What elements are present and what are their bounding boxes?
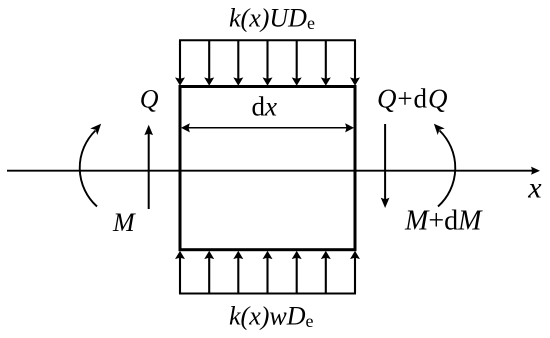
moment arc M+dM (right) [434, 124, 455, 206]
svg-text:dx: dx [252, 92, 278, 122]
bottom distributed load line [179, 293, 356, 295]
x-axis line [7, 170, 533, 172]
bottom load arrow 1 [176, 252, 184, 294]
svg-text:k(x)wDe: k(x)wDe [229, 302, 314, 332]
top load arrow 2 [205, 40, 213, 85]
svg-text:Q+dQ: Q+dQ [377, 83, 448, 113]
svg-text:Q: Q [140, 85, 159, 114]
svg-text:M+dM: M+dM [404, 205, 483, 236]
top load arrow 3 [234, 40, 242, 85]
moment arc M (left) [80, 124, 101, 206]
dimension arrow dx [182, 124, 353, 132]
bottom load arrow 6 [322, 252, 330, 294]
top load arrow 5 [293, 40, 301, 85]
top distributed load line [179, 39, 356, 41]
svg-text:k(x)UDe: k(x)UDe [229, 4, 315, 34]
bottom load arrow 2 [205, 252, 213, 294]
bottom load arrow 3 [234, 252, 242, 294]
top load arrow 4 [264, 40, 272, 85]
beam element rectangle [180, 87, 355, 250]
top load arrow 7 [351, 40, 359, 85]
x-axis arrowhead [531, 167, 540, 175]
svg-text:x: x [527, 172, 542, 205]
shear force arrow Q (left, upward) [145, 126, 152, 209]
top load arrow 1 [176, 40, 184, 85]
bottom load arrow 5 [293, 252, 301, 294]
bottom load arrow 7 [351, 252, 359, 294]
bottom load arrow 4 [264, 252, 272, 294]
svg-text:M: M [112, 208, 136, 237]
shear force arrow Q+dQ (right, downward) [382, 124, 389, 207]
top load arrow 6 [322, 40, 330, 85]
